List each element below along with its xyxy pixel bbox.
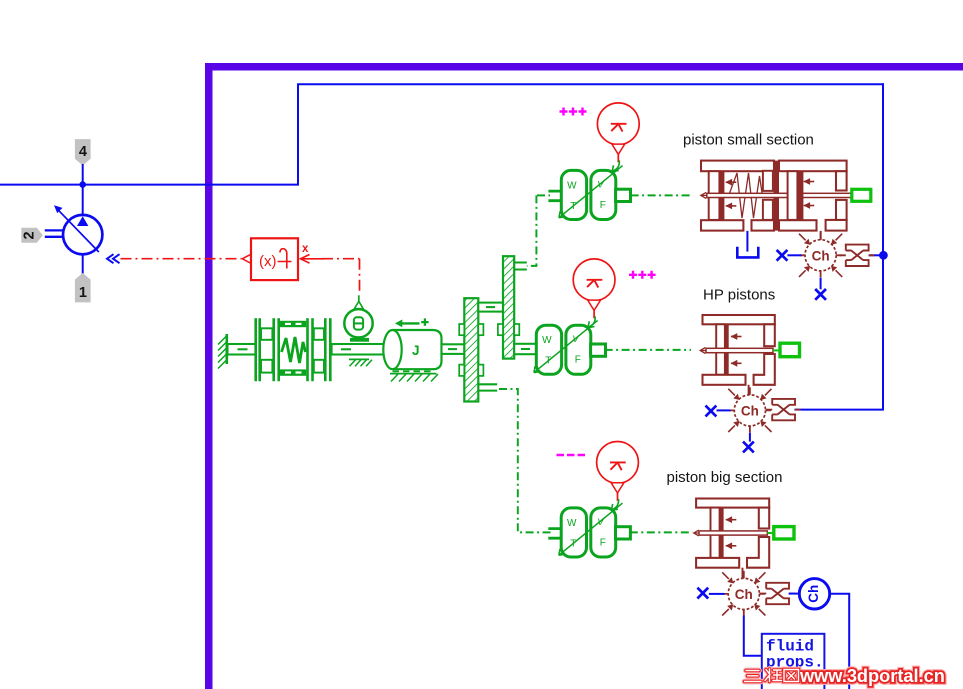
drain line to tank (blue) <box>746 231 748 252</box>
zero-flow source X (left of Ch1) <box>777 250 788 261</box>
rod to port link (green) <box>767 532 774 534</box>
pipe to chamber Ch1 <box>820 231 822 240</box>
piston small section: cylinder 1 top bar <box>701 161 774 172</box>
big piston: bottom bar <box>696 558 739 568</box>
pump: variable-displacement diagonal arrow <box>59 210 99 252</box>
load ground hatch <box>393 370 435 372</box>
function block f(x) <box>251 238 298 280</box>
port tag 4 <box>75 139 91 165</box>
rotary chamber source (blue Ch) <box>789 593 800 595</box>
node: junction dot at pump <box>79 181 86 188</box>
rotation direction arrow + <box>400 322 420 324</box>
gain K2 (middle) <box>573 259 615 328</box>
piston small section: piston 1 <box>709 171 720 220</box>
magenta - - - bottom <box>557 454 586 456</box>
svg-text:piston big section: piston big section <box>667 469 783 486</box>
HP piston: right wall lower + step <box>754 354 775 385</box>
green dash-dot: top transformer link <box>527 195 550 266</box>
svg-text:1: 1 <box>79 285 87 301</box>
wire: blue right drop <box>882 83 884 409</box>
signal wire: red dash-dot pump command <box>121 258 242 260</box>
big piston: rod <box>699 531 767 535</box>
shaft segment 2 <box>332 344 387 355</box>
pump: left rotary port double line <box>45 230 64 236</box>
magenta +++ top <box>560 108 587 116</box>
orifice O3 <box>760 583 795 604</box>
wire: Ch3 to fluid props <box>744 616 763 656</box>
svg-text:piston small section: piston small section <box>683 132 814 149</box>
wire: blue branch small-section orifice <box>869 254 883 256</box>
chamber Ch3 (big section) <box>722 571 765 616</box>
HP piston: rod <box>706 348 773 352</box>
orifice O2 <box>766 399 801 420</box>
tank <box>737 247 758 258</box>
svg-text:x: x <box>302 243 309 255</box>
shaft segment 4 <box>514 344 536 354</box>
magenta +++ middle <box>629 271 656 279</box>
green dash-dot: mid transformer to HP piston <box>605 349 691 351</box>
ground wall (left) <box>226 334 229 364</box>
wire: blue hydraulic line pump to top rail <box>0 184 298 186</box>
function block input arrow <box>301 255 325 264</box>
svg-text:www.3dportal.cn: www.3dportal.cn <box>799 666 945 686</box>
function block f(x) output triangle <box>242 254 251 263</box>
wire: blue top rail <box>297 83 884 85</box>
svg-text:Ch: Ch <box>806 585 821 603</box>
port tag 1 <box>75 273 91 303</box>
svg-text:J: J <box>412 343 420 358</box>
gear 2 top takeoff fork <box>514 263 527 270</box>
chamber Ch1 (small section) <box>799 232 842 277</box>
piston small section: rod end port (green) <box>852 189 871 201</box>
svg-text:HP pistons: HP pistons <box>703 287 775 304</box>
svg-text:(x): (x) <box>259 253 277 270</box>
orifice O1 <box>840 245 875 266</box>
supercomponent frame: purple vertical border <box>205 63 213 689</box>
piston small section: mid wall <box>763 171 773 191</box>
wire: pump bottom port <box>82 254 84 274</box>
HP piston: piston <box>716 324 725 375</box>
wire: blue branch to HP orifice <box>795 409 884 411</box>
gear wheel 2 <box>503 256 514 358</box>
big piston: rod end port (green) <box>774 527 794 539</box>
piston small section: chamber 2 arrows <box>803 178 814 185</box>
piston small section: rod <box>707 193 852 197</box>
HP piston: rod end port (green) <box>780 343 800 357</box>
transformer TF1 (top, rotary to force) <box>559 166 631 220</box>
green dash-dot: top transformer to small piston <box>631 194 693 196</box>
piston small section: spring <box>729 173 763 218</box>
HP piston: chamber arrows <box>731 333 742 340</box>
big piston: right wall lower <box>747 537 769 568</box>
piston small section: chamber 1 arrows <box>725 179 736 186</box>
zero-flow source X (left of Ch3) <box>697 588 708 599</box>
shaft segment 1 <box>228 344 257 355</box>
piston small section: right wall <box>836 171 847 190</box>
rotary spring-damper coupling <box>254 318 331 381</box>
angle sensor theta <box>344 309 372 337</box>
green dash-dot: bottom transformer to big piston <box>630 531 693 533</box>
piston small section: cylinder 2 top bar <box>779 161 847 172</box>
gear wheel 1 <box>464 298 478 401</box>
big piston: top bar <box>696 499 769 508</box>
piston small section: piston 2 <box>788 171 798 220</box>
pump: direction triangle <box>77 216 88 226</box>
node: junction dot on right drop <box>879 251 888 260</box>
big piston: right wall upper <box>759 508 769 529</box>
gear 1 bottom takeoff fork <box>478 384 497 390</box>
fluid properties block <box>762 634 825 689</box>
shaft segment 3 <box>442 344 465 354</box>
piston small section: center divider <box>774 161 779 231</box>
svg-text:4: 4 <box>79 144 87 160</box>
piston small section: bottom bars <box>701 220 743 230</box>
port tag 2 <box>21 228 43 243</box>
coupling spring W <box>282 337 306 363</box>
wire: pump top port <box>82 164 84 214</box>
zero-flow source X (left of Ch2) <box>706 406 717 417</box>
big piston: piston <box>711 508 720 558</box>
wire: blue Ch to bottom edge <box>830 594 850 689</box>
pump: variable displacement pump body <box>63 215 102 254</box>
transformer TF2 (middle) <box>534 320 606 374</box>
angle sensor theta output port <box>358 295 360 302</box>
watermark 3dportal <box>745 666 945 686</box>
gear connecting shaft <box>478 303 503 312</box>
gain K1 (top) <box>597 103 639 172</box>
svg-text:2: 2 <box>21 231 37 239</box>
chamber Ch2 (HP) <box>728 387 771 432</box>
zero-flow source X (below Ch2) <box>749 433 751 442</box>
pipe to chamber Ch3 <box>742 568 744 579</box>
transformer TF3 (bottom) <box>559 503 631 557</box>
pump: signal input chevron arrows <box>107 254 120 263</box>
angle sensor pedestal <box>350 338 369 342</box>
HP piston: top bar <box>703 315 775 324</box>
gain K3 (bottom) <box>597 442 639 511</box>
HP piston: right wall upper <box>764 324 775 346</box>
rod to port link (green) <box>773 349 781 351</box>
wire: blue vertical riser <box>297 84 299 185</box>
supercomponent frame: purple horizontal border <box>205 63 963 71</box>
green dash-dot: gear to bottom transformer <box>499 389 551 532</box>
HP piston: bottom bar <box>703 375 746 385</box>
pipe to chamber Ch2 <box>748 385 750 395</box>
big piston: chamber arrows <box>725 516 736 523</box>
zero-flow source X (below Ch1) <box>820 278 822 290</box>
rotary load J <box>393 330 442 369</box>
shaft bearing hatch <box>349 358 369 360</box>
signal wire: red dash-dot from angle sensor <box>322 259 360 294</box>
